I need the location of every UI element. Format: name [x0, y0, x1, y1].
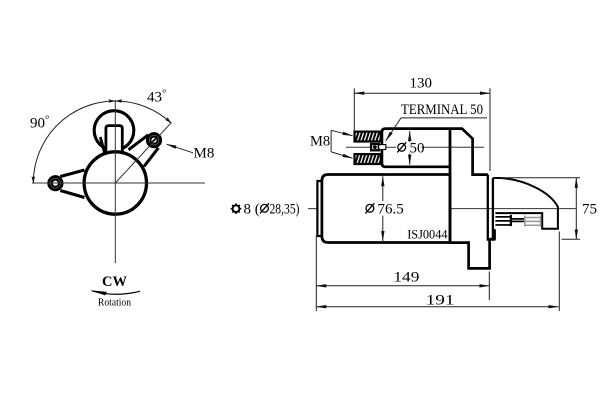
TERMINAL 50 underline and leader	[401, 117, 487, 119]
main body cylinder	[322, 175, 450, 243]
drive end nose outline	[493, 178, 558, 229]
solenoid outline	[382, 129, 488, 175]
flange step notch	[490, 230, 495, 238]
brush holder rect	[106, 126, 122, 153]
dim dia50 arrows	[409, 131, 411, 142]
flange front edge	[449, 129, 452, 243]
svg-text:76.5: 76.5	[378, 202, 404, 218]
upper-right ear lug lines	[129, 135, 149, 150]
neck flare left	[100, 137, 104, 153]
dim 75 line	[575, 178, 577, 240]
solenoid centerline	[346, 146, 396, 148]
nose mounting plate	[487, 175, 489, 240]
43-degree arc	[115, 101, 171, 123]
svg-text:149: 149	[393, 269, 419, 285]
43-degree diagonal line	[115, 123, 171, 184]
M8 threaded stud top	[355, 132, 381, 142]
dim dia76.5 arrows	[382, 176, 384, 201]
terminal stud rect	[379, 145, 386, 150]
svg-text:130: 130	[410, 76, 433, 92]
shaft lines	[511, 218, 525, 220]
terminal 50 square	[371, 144, 379, 150]
M8 bracket (right view)	[330, 130, 332, 152]
horizontal centerline left view	[32, 182, 205, 184]
upper-right ear hole	[150, 137, 157, 144]
M8 threaded stud bottom	[355, 154, 381, 164]
lower-left ear hole	[52, 180, 59, 187]
main body circle	[84, 152, 146, 214]
dim 149/191 left extension line	[315, 236, 317, 312]
svg-text:8 (: 8 (	[244, 202, 260, 218]
dim 191 right extension line	[558, 232, 560, 312]
flange bottom tab	[450, 239, 490, 268]
commutator end cap	[317, 181, 321, 236]
pinion gear (grey)	[525, 216, 541, 227]
90-degree arc	[33, 101, 115, 183]
lower-left ear lug lines	[60, 170, 84, 177]
lower-left ear outer circle	[49, 177, 62, 190]
main centerline	[308, 208, 363, 210]
M8 leader arrow (left view)	[167, 144, 194, 153]
custom diameter glyph in label	[260, 203, 269, 213]
svg-text:Rotation: Rotation	[98, 297, 131, 309]
svg-text:ISJ0044: ISJ0044	[407, 228, 447, 242]
gear icon for pinion teeth count	[231, 203, 242, 214]
dim 149 right extension line	[488, 272, 490, 301]
terminal dot	[373, 145, 377, 149]
svg-text:50: 50	[410, 141, 425, 157]
svg-text:75: 75	[582, 201, 597, 217]
dim 191 line	[316, 306, 558, 308]
svg-text:28,35): 28,35)	[270, 202, 300, 218]
svg-text:TERMINAL 50: TERMINAL 50	[401, 102, 483, 118]
upper-right ear outer circle	[147, 134, 160, 147]
dim 130 extension lines	[353, 88, 355, 132]
label dia 50	[397, 142, 406, 152]
dim 149 line	[316, 285, 489, 287]
svg-text:191: 191	[426, 292, 455, 308]
rotation arrow arc	[92, 291, 140, 294]
bearing hump circle	[94, 111, 134, 151]
vertical centerline left view	[114, 100, 116, 263]
svg-text:CW: CW	[102, 274, 127, 290]
svg-text:M8: M8	[310, 134, 330, 150]
svg-text:M8: M8	[194, 146, 215, 162]
dim 75 extension lines	[500, 177, 580, 179]
label dia 76.5	[365, 203, 374, 213]
dim 130 line	[354, 92, 490, 94]
shaft spline ladder	[495, 216, 511, 226]
slot in upper-right ear hole	[150, 136, 158, 144]
